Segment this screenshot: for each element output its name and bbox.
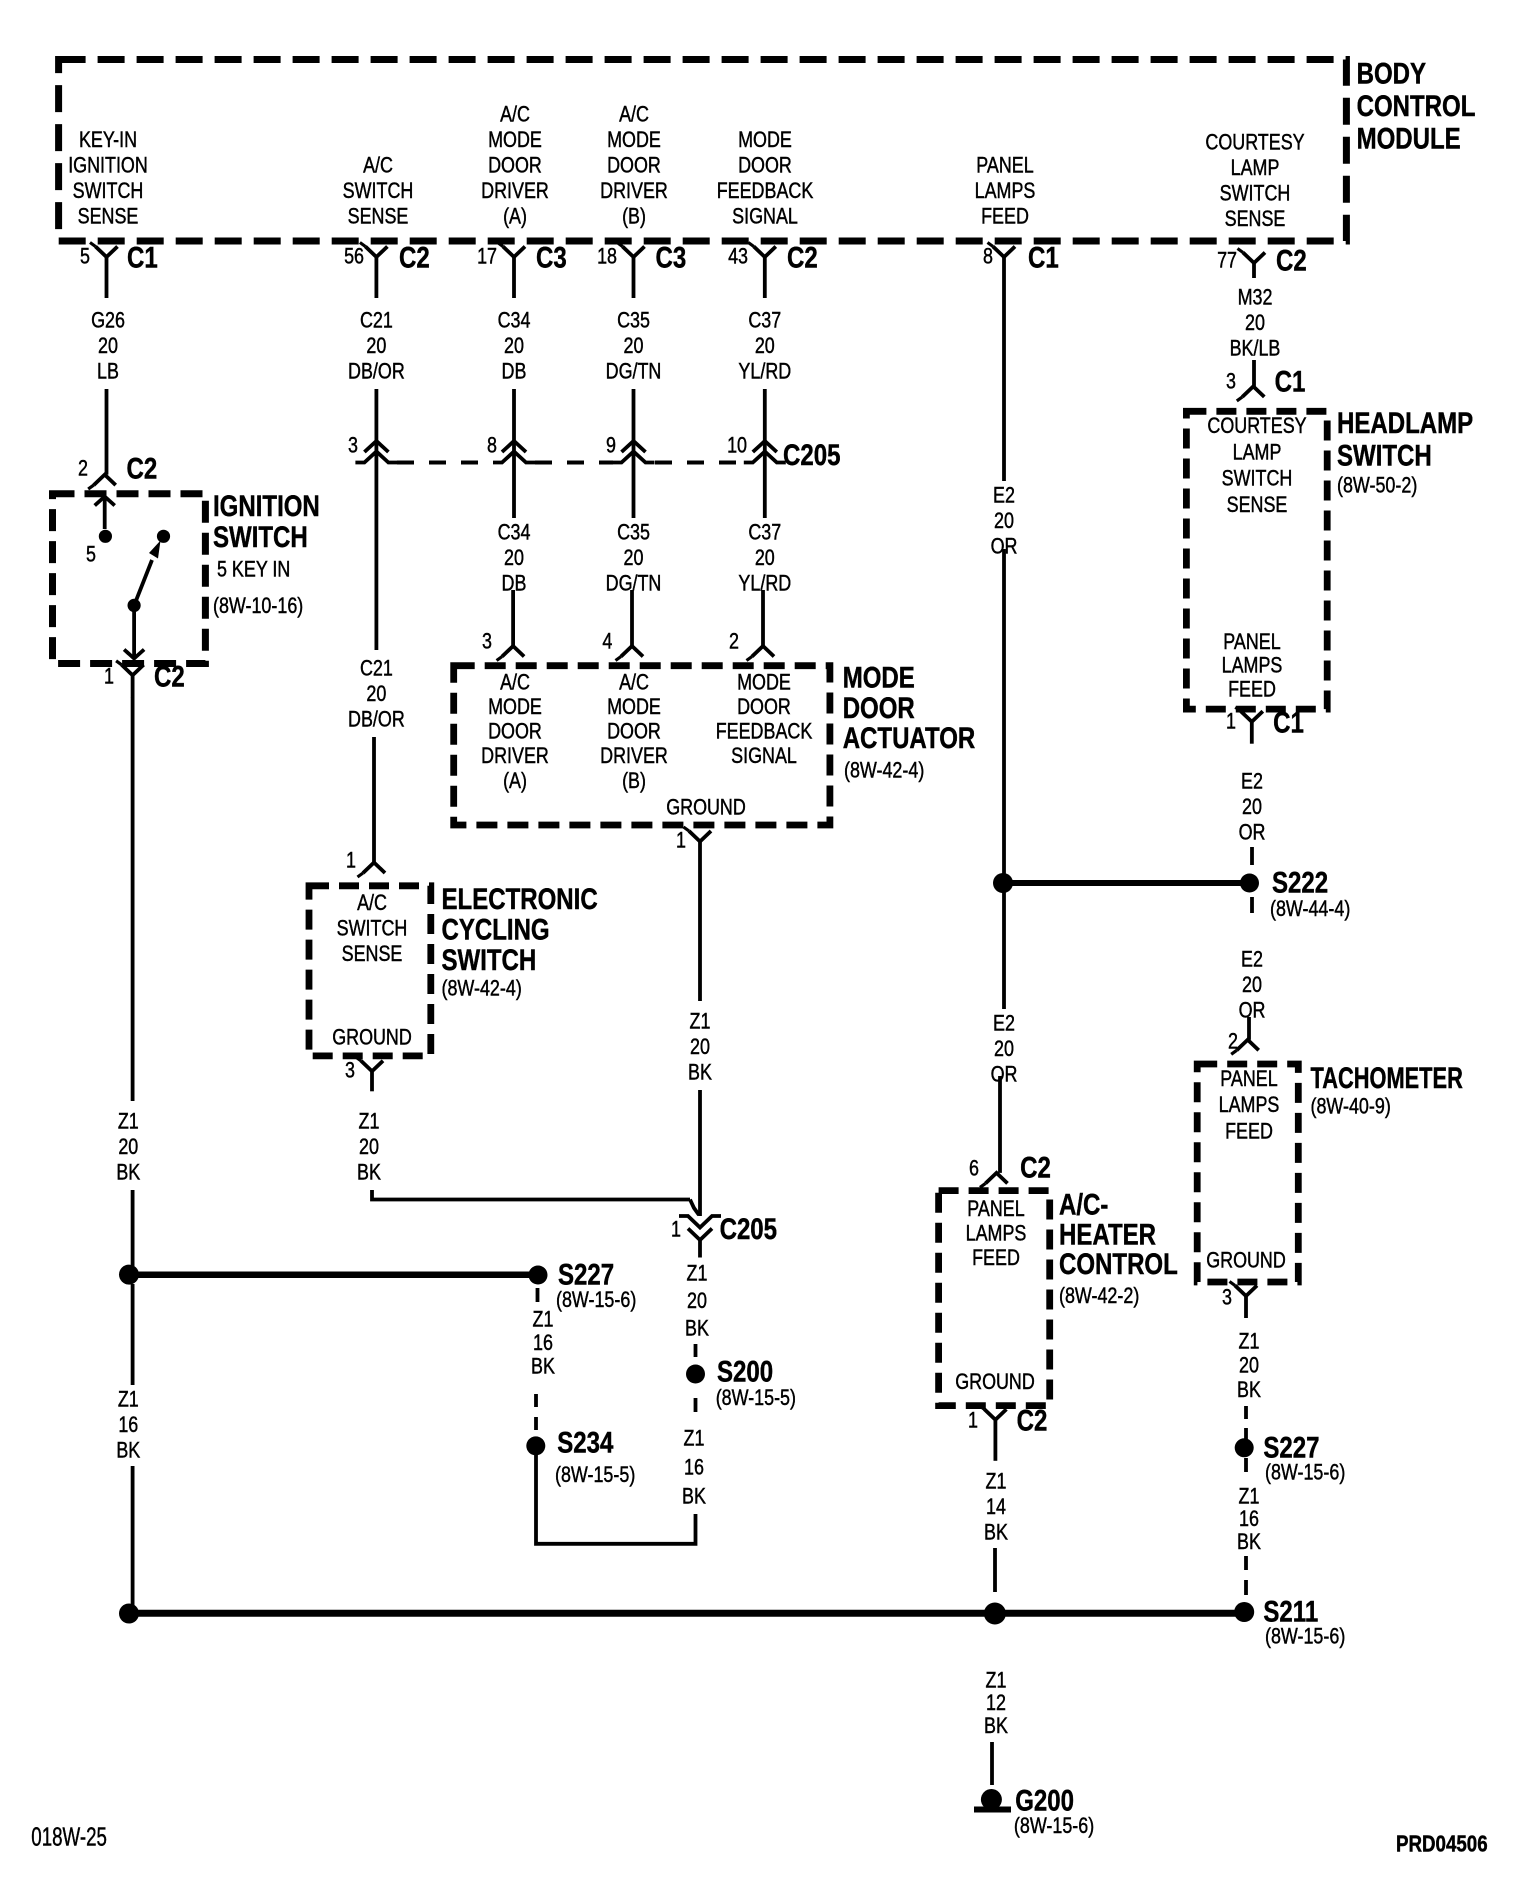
svg-text:SENSE: SENSE [78, 205, 139, 229]
splice S222 [1240, 866, 1350, 921]
BCM pin label KEY-IN IGNITION SWITCH SENSE [68, 128, 148, 229]
wire label Z1 20 BK (tach) [1237, 1330, 1261, 1403]
wire stubs to S211 [1244, 1556, 1248, 1595]
svg-text:BK: BK [682, 1485, 706, 1509]
svg-text:E2: E2 [993, 484, 1015, 508]
connector pin 18 C3 (BCM) [597, 241, 686, 298]
wire to tachometer pin 2 [1247, 1017, 1251, 1040]
svg-text:SWITCH: SWITCH [73, 179, 144, 203]
wire BCM pin43 to C205 [763, 389, 767, 464]
inline connector pin 3 C205 [348, 434, 397, 463]
svg-text:LAMPS: LAMPS [1219, 1093, 1280, 1117]
connector pin 77 C2 (BCM) [1217, 244, 1307, 278]
svg-text:1: 1 [346, 849, 356, 873]
svg-text:FEEDBACK: FEEDBACK [716, 720, 813, 744]
svg-text:SENSE: SENSE [1227, 493, 1288, 517]
wire label Z1 14 BK [984, 1470, 1008, 1545]
svg-text:16: 16 [684, 1456, 704, 1480]
C205 dashed harness line (segment 3) [655, 461, 743, 465]
svg-text:Z1: Z1 [118, 1388, 139, 1412]
connector pin 8 C1 (BCM) [983, 241, 1059, 298]
svg-text:C21: C21 [360, 657, 393, 681]
wire label Z1 16 BK (right) [1237, 1485, 1261, 1555]
splice S211 [1234, 1595, 1345, 1649]
svg-text:Z1: Z1 [690, 1010, 711, 1034]
wire BCM pin17 to C205 [512, 389, 516, 464]
wire stub to S200 [694, 1344, 698, 1357]
svg-text:20: 20 [755, 334, 775, 358]
svg-text:5: 5 [80, 245, 90, 269]
A/C-heater control box [939, 1191, 1050, 1406]
svg-text:S227: S227 [1263, 1431, 1319, 1464]
headlamp label PANEL LAMPS FEED [1222, 630, 1283, 702]
connector pin 3 C1 (headlamp switch) [1226, 365, 1305, 401]
svg-text:Z1: Z1 [684, 1427, 705, 1451]
svg-text:SIGNAL: SIGNAL [732, 205, 798, 229]
svg-text:20: 20 [1239, 1354, 1259, 1378]
svg-text:(A): (A) [503, 769, 527, 793]
connector pin 3 (tach ground) [1222, 1282, 1257, 1319]
wire to C205 pin 1 [698, 1090, 702, 1216]
inline connector pin 1 C205 (ground) [671, 1213, 777, 1258]
svg-text:3: 3 [1226, 370, 1236, 394]
BCM pin label A/C SWITCH SENSE [343, 154, 414, 229]
svg-text:(8W-15-5): (8W-15-5) [716, 1386, 796, 1410]
svg-text:20: 20 [366, 334, 386, 358]
wire to bottom bus [131, 1466, 135, 1606]
svg-text:BK: BK [984, 1521, 1008, 1545]
svg-text:(8W-10-16): (8W-10-16) [213, 594, 303, 618]
wire bus to S222 [1003, 880, 1250, 886]
svg-text:FEEDBACK: FEEDBACK [717, 179, 814, 203]
svg-text:3: 3 [1222, 1286, 1232, 1310]
svg-text:C3: C3 [656, 241, 687, 274]
inline connector pin 10 C205 [727, 434, 786, 463]
connector pin 2 C2 (ignition switch) [78, 452, 157, 489]
svg-text:BK: BK [531, 1355, 555, 1379]
svg-text:4: 4 [602, 630, 612, 654]
svg-text:5: 5 [86, 543, 96, 567]
svg-text:OR: OR [1239, 821, 1266, 845]
wire label Z1 16 BK (left) [116, 1388, 140, 1463]
connector pin 43 C2 (BCM) [728, 241, 818, 298]
svg-text:C1: C1 [1275, 365, 1306, 398]
body control module box [59, 60, 1347, 242]
svg-text:C2: C2 [127, 452, 158, 485]
ground bus line [129, 1610, 1244, 1617]
wire to ground G200 [990, 1742, 994, 1785]
svg-text:20: 20 [624, 546, 644, 570]
svg-text:(B): (B) [622, 769, 646, 793]
svg-text:(8W-50-2): (8W-50-2) [1337, 474, 1417, 498]
svg-text:ACTUATOR: ACTUATOR [843, 722, 976, 755]
svg-text:SWITCH: SWITCH [1337, 439, 1432, 472]
svg-text:DRIVER: DRIVER [600, 745, 668, 769]
ground G200 [974, 1784, 1094, 1838]
ECS label GROUND [332, 1026, 412, 1050]
svg-text:3: 3 [348, 434, 358, 458]
ignition switch blade [134, 541, 160, 606]
svg-text:BK: BK [116, 1161, 140, 1185]
wire label E2 20 OR (middle) [991, 1012, 1018, 1087]
BCM pin label A/C MODE DOOR DRIVER (B) [600, 103, 668, 229]
svg-text:CYCLING: CYCLING [442, 913, 550, 946]
wire into MDA pin4 [630, 590, 634, 646]
svg-text:C1: C1 [127, 241, 158, 274]
svg-text:DB/OR: DB/OR [348, 708, 405, 732]
connector pin 1 (MDA ground) [676, 827, 711, 873]
wire label C34 20 DB (upper) [498, 309, 531, 384]
svg-text:C35: C35 [617, 521, 650, 545]
svg-text:DOOR: DOOR [607, 720, 661, 744]
svg-text:OR: OR [1239, 999, 1266, 1023]
BCM pin label COURTESY LAMP SWITCH SENSE [1205, 131, 1304, 232]
tachometer title [1311, 1063, 1464, 1119]
svg-text:FEED: FEED [1225, 1120, 1273, 1144]
svg-text:C21: C21 [360, 309, 393, 333]
connector pin 1 C2 (ignition switch) [104, 660, 185, 697]
svg-text:IGNITION: IGNITION [68, 154, 148, 178]
svg-text:DOOR: DOOR [488, 720, 542, 744]
electronic cycling switch box [309, 886, 431, 1056]
svg-text:18: 18 [597, 245, 617, 269]
svg-text:1: 1 [1226, 710, 1236, 734]
svg-text:Z1: Z1 [1239, 1485, 1260, 1509]
svg-text:Z1: Z1 [533, 1308, 554, 1332]
svg-text:C1: C1 [1028, 241, 1059, 274]
connector pin 1 C2 (heater ground) [968, 1404, 1047, 1460]
junction node bottom bus left [119, 1604, 139, 1624]
svg-text:DRIVER: DRIVER [481, 745, 549, 769]
svg-text:A/C: A/C [500, 103, 530, 127]
wire stub below S227 [536, 1288, 540, 1302]
svg-text:S227: S227 [558, 1258, 614, 1291]
wire label C35 20 DG/TN (upper) [606, 309, 662, 384]
svg-text:20: 20 [359, 1135, 379, 1159]
wire label E2 20 OR (to tach) [1239, 948, 1266, 1023]
svg-text:3: 3 [482, 630, 492, 654]
svg-text:Z1: Z1 [118, 1110, 139, 1134]
svg-text:C3: C3 [536, 241, 567, 274]
wire junction to heater control [1002, 891, 1006, 1009]
svg-text:COURTESY: COURTESY [1207, 414, 1306, 438]
drawing number PRD04506 [1396, 1832, 1488, 1857]
svg-text:(8W-42-2): (8W-42-2) [1059, 1284, 1139, 1308]
wire BCM pin56 to C205 [374, 389, 378, 464]
svg-text:C35: C35 [617, 309, 650, 333]
wire label C34 20 DB (lower) [498, 521, 531, 596]
tach label GROUND [1206, 1249, 1286, 1273]
svg-text:20: 20 [690, 1035, 710, 1059]
wire bus to S227 [129, 1272, 538, 1279]
svg-text:20: 20 [687, 1289, 707, 1313]
svg-text:OR: OR [991, 1063, 1018, 1087]
svg-text:PANEL: PANEL [1223, 630, 1280, 654]
headlamp switch title [1337, 407, 1473, 498]
svg-text:LAMPS: LAMPS [975, 179, 1036, 203]
svg-text:C37: C37 [748, 309, 781, 333]
svg-text:PRD04506: PRD04506 [1396, 1832, 1488, 1857]
svg-text:20: 20 [624, 334, 644, 358]
wire C205 to MDA pin2 [763, 464, 767, 518]
BCM pin label MODE DOOR FEEDBACK SIGNAL [717, 128, 814, 229]
connector pin 3 (mode door actuator) [482, 630, 524, 661]
svg-text:C34: C34 [498, 309, 531, 333]
svg-text:(B): (B) [622, 205, 646, 229]
tachometer box [1197, 1064, 1298, 1282]
svg-text:E2: E2 [993, 1012, 1015, 1036]
wire BCM pin8 down [1002, 298, 1006, 481]
svg-text:16: 16 [118, 1413, 138, 1437]
svg-text:Z1: Z1 [986, 1470, 1007, 1494]
svg-text:C2: C2 [399, 241, 430, 274]
svg-text:Z1: Z1 [986, 1669, 1007, 1693]
svg-text:G200: G200 [1015, 1784, 1074, 1817]
wire into MDA pin3 [511, 590, 515, 646]
svg-text:KEY-IN: KEY-IN [79, 128, 137, 152]
svg-text:DOOR: DOOR [843, 692, 915, 725]
svg-text:HEATER: HEATER [1059, 1218, 1156, 1251]
svg-text:SENSE: SENSE [342, 942, 403, 966]
svg-text:(8W-15-5): (8W-15-5) [555, 1463, 635, 1487]
BCM pin label A/C MODE DOOR DRIVER (A) [481, 103, 549, 229]
svg-text:(8W-15-6): (8W-15-6) [1014, 1814, 1094, 1838]
splice S234 [526, 1426, 635, 1487]
svg-text:(8W-15-6): (8W-15-6) [1265, 1625, 1345, 1649]
svg-text:COURTESY: COURTESY [1205, 131, 1304, 155]
svg-text:9: 9 [606, 434, 616, 458]
wire label G26 20 LB [91, 309, 125, 384]
svg-text:C34: C34 [498, 521, 531, 545]
svg-text:1: 1 [104, 665, 114, 689]
svg-text:FEED: FEED [972, 1246, 1020, 1270]
svg-text:C2: C2 [1020, 1151, 1051, 1184]
svg-text:77: 77 [1217, 249, 1237, 273]
wire S200 to S234 loop [536, 1455, 696, 1544]
svg-text:FEED: FEED [981, 205, 1029, 229]
svg-text:(8W-15-6): (8W-15-6) [1265, 1461, 1345, 1485]
sheet number 018W-25 [31, 1822, 107, 1852]
svg-text:20: 20 [118, 1135, 138, 1159]
svg-text:E2: E2 [1241, 948, 1263, 972]
wire label Z1 16 BK (mid) [682, 1427, 706, 1509]
connector pin 2 (tachometer) [1228, 1030, 1259, 1055]
svg-text:DB: DB [502, 360, 527, 384]
svg-text:BK: BK [116, 1439, 140, 1463]
wire junction to lower junction [131, 1284, 135, 1385]
wire stub below S222 [1250, 897, 1254, 913]
svg-text:20: 20 [1242, 795, 1262, 819]
splice S227 (right) [1235, 1431, 1346, 1485]
svg-text:M32: M32 [1238, 286, 1273, 310]
svg-text:BODY: BODY [1357, 57, 1426, 90]
svg-text:SWITCH: SWITCH [442, 944, 537, 977]
svg-text:PANEL: PANEL [967, 1197, 1024, 1221]
svg-text:(8W-44-4): (8W-44-4) [1270, 897, 1350, 921]
svg-text:20: 20 [98, 334, 118, 358]
svg-text:20: 20 [994, 1037, 1014, 1061]
inline connector pin 8 C205 [487, 434, 535, 463]
tach label PANEL LAMPS FEED [1219, 1067, 1280, 1144]
ECS label A/C SWITCH SENSE [337, 891, 408, 966]
svg-text:SIGNAL: SIGNAL [731, 745, 797, 769]
svg-text:(8W-42-4): (8W-42-4) [844, 759, 924, 783]
ignition switch title [213, 490, 320, 619]
wire C205 to MDA pin4 [632, 464, 636, 518]
svg-text:6: 6 [969, 1157, 979, 1181]
svg-text:2: 2 [78, 457, 88, 481]
svg-text:Z1: Z1 [687, 1262, 708, 1286]
svg-text:C205: C205 [783, 439, 840, 472]
wire MDA ground down [698, 873, 702, 1001]
mode door actuator box [454, 666, 830, 825]
svg-text:SWITCH: SWITCH [343, 179, 414, 203]
svg-text:20: 20 [1242, 973, 1262, 997]
connector pin 4 (mode door actuator) [602, 630, 643, 661]
svg-text:16: 16 [1239, 1507, 1259, 1531]
svg-text:DOOR: DOOR [607, 154, 661, 178]
svg-text:(8W-15-6): (8W-15-6) [556, 1288, 636, 1312]
MDA label A/C MODE DOOR DRIVER (A) [481, 671, 549, 794]
svg-text:GROUND: GROUND [955, 1370, 1035, 1394]
svg-text:C2: C2 [787, 241, 818, 274]
svg-text:LAMPS: LAMPS [966, 1222, 1027, 1246]
svg-text:C1: C1 [1273, 706, 1304, 739]
svg-text:YL/RD: YL/RD [738, 360, 791, 384]
wire to S227 junction [131, 1190, 135, 1266]
A/C-heater control title [1059, 1188, 1178, 1308]
connector pin 56 C2 (BCM) [344, 241, 430, 298]
wire stub below S200 [694, 1398, 698, 1412]
svg-text:MODULE: MODULE [1357, 122, 1461, 155]
connector pin 1 (electronic cycling switch) [346, 849, 385, 877]
inline connector name C205 (top) [783, 439, 840, 472]
electronic cycling switch title [442, 883, 598, 1001]
svg-text:PANEL: PANEL [976, 154, 1033, 178]
connector pin 2 (mode door actuator) [729, 630, 774, 661]
svg-text:20: 20 [755, 546, 775, 570]
headlamp switch box [1186, 411, 1327, 709]
heater label GROUND [955, 1370, 1035, 1394]
wire label C21 20 DB/OR (lower) [348, 657, 405, 732]
ignition switch contact 5 [86, 530, 112, 567]
svg-text:BK: BK [984, 1714, 1008, 1738]
BCM title BODY CONTROL MODULE [1357, 57, 1476, 155]
wire to headlamp switch [1252, 360, 1256, 386]
svg-text:Z1: Z1 [359, 1110, 380, 1134]
svg-text:C2: C2 [154, 660, 185, 693]
svg-text:C37: C37 [748, 521, 781, 545]
wire into MDA pin2 [761, 590, 765, 646]
svg-text:BK/LB: BK/LB [1230, 337, 1281, 361]
svg-text:14: 14 [986, 1495, 1006, 1519]
connector pin 17 C3 (BCM) [477, 241, 567, 298]
heater label PANEL LAMPS FEED [966, 1197, 1027, 1270]
svg-text:C2: C2 [1276, 244, 1307, 277]
svg-text:GROUND: GROUND [332, 1026, 412, 1050]
svg-text:MODE: MODE [737, 671, 791, 695]
inline connector pin 9 C205 [606, 434, 654, 463]
wire stubs above S234 [534, 1394, 538, 1430]
wire stubs to S227 [1244, 1406, 1248, 1441]
svg-text:S200: S200 [717, 1355, 773, 1388]
svg-text:MODE: MODE [738, 128, 792, 152]
ignition switch box [53, 494, 206, 664]
junction node bottom bus center [984, 1603, 1006, 1625]
svg-text:2: 2 [729, 630, 739, 654]
svg-text:20: 20 [504, 334, 524, 358]
wire stub to S222 [1250, 847, 1254, 865]
C205 dashed harness line (segment 2) [535, 461, 613, 465]
svg-text:PANEL: PANEL [1220, 1067, 1277, 1091]
wire label C35 20 DG/TN (lower) [606, 521, 662, 596]
connector pin 1 C1 (headlamp panel lamps feed) [1226, 706, 1304, 743]
C205 dashed harness line (segment 1) [397, 461, 493, 465]
svg-text:MODE: MODE [843, 661, 915, 694]
svg-text:20: 20 [994, 509, 1014, 533]
wire ignition switch to splice junction [131, 697, 135, 1101]
svg-text:MODE: MODE [607, 128, 661, 152]
svg-text:12: 12 [986, 1691, 1006, 1715]
wire heater ground to bus [993, 1548, 997, 1592]
wire label Z1 20 BK (ECS) [357, 1110, 381, 1185]
svg-text:SENSE: SENSE [1225, 207, 1286, 231]
svg-text:MODE: MODE [488, 128, 542, 152]
wire ECS ground to C205 pin1 [372, 1190, 699, 1215]
svg-text:GROUND: GROUND [1206, 1249, 1286, 1273]
svg-text:G26: G26 [91, 309, 125, 333]
ignition switch output arrow [124, 611, 144, 659]
wire label C21 20 DB/OR (upper) [348, 309, 405, 384]
junction node to S222 [993, 873, 1013, 893]
svg-text:E2: E2 [1241, 770, 1263, 794]
wire label M32 20 BK/LB [1230, 286, 1281, 361]
MDA label A/C MODE DOOR DRIVER (B) [600, 671, 668, 794]
svg-text:DRIVER: DRIVER [600, 179, 668, 203]
svg-text:BK: BK [685, 1317, 709, 1341]
svg-text:C205: C205 [720, 1213, 777, 1246]
svg-text:DOOR: DOOR [738, 154, 792, 178]
wire to S222 junction [1002, 549, 1006, 875]
MDA label MODE DOOR FEEDBACK SIGNAL [716, 671, 813, 769]
svg-text:MODE: MODE [488, 695, 542, 719]
wire BCM pin18 to C205 [632, 389, 636, 464]
splice S227 (mid) [529, 1258, 637, 1312]
svg-text:018W-25: 018W-25 [31, 1822, 107, 1852]
wire stub below S227 right [1244, 1458, 1248, 1472]
svg-text:SENSE: SENSE [348, 205, 409, 229]
svg-text:GROUND: GROUND [666, 796, 746, 820]
ignition switch contact (key-in) [157, 530, 170, 543]
svg-text:S211: S211 [1263, 1595, 1318, 1628]
mode door actuator title [843, 661, 976, 783]
svg-text:SWITCH: SWITCH [337, 917, 408, 941]
svg-text:20: 20 [504, 546, 524, 570]
svg-text:CONTROL: CONTROL [1059, 1248, 1178, 1281]
wire to ECS pin 1 [372, 737, 376, 863]
svg-text:BK: BK [357, 1161, 381, 1185]
wire label E2 20 OR (upper) [991, 484, 1018, 559]
svg-text:DRIVER: DRIVER [481, 179, 549, 203]
svg-text:A/C: A/C [619, 671, 649, 695]
connector pin 5 C1 (BCM) [80, 241, 158, 298]
svg-text:MODE: MODE [607, 695, 661, 719]
svg-text:SWITCH: SWITCH [1222, 467, 1293, 491]
svg-text:LAMP: LAMP [1231, 156, 1280, 180]
svg-text:20: 20 [366, 682, 386, 706]
svg-text:FEED: FEED [1228, 678, 1276, 702]
svg-text:BK: BK [1237, 1530, 1261, 1554]
